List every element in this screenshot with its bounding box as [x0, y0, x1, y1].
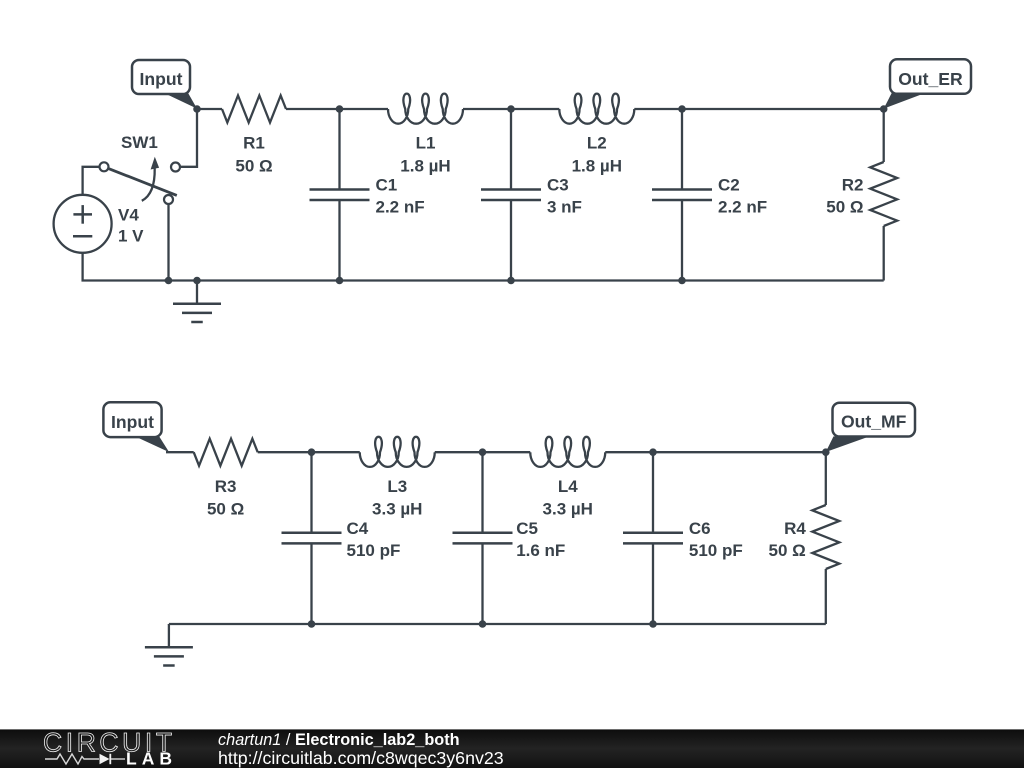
junction C6 bottom	[649, 620, 657, 628]
node Out_MF (junction dot)	[822, 448, 830, 456]
wire R1 to L1	[286, 108, 388, 110]
svg-text:R4: R4	[784, 519, 806, 538]
svg-text:V4: V4	[118, 206, 139, 225]
junction C4 top	[308, 448, 316, 456]
wire R2 to ground bus	[883, 226, 885, 281]
switch SW1 arm	[108, 168, 177, 195]
net flag Out_ER	[884, 59, 971, 108]
wire Input flag to R3	[166, 451, 194, 453]
resistor R1	[222, 96, 286, 123]
svg-text:http://circuitlab.com/c8wqec3y: http://circuitlab.com/c8wqec3y6nv23	[218, 748, 504, 768]
resistor R4	[812, 505, 839, 569]
wire L1 to L2	[463, 108, 559, 110]
wire V4 bottom to ground bus	[83, 253, 165, 281]
voltage source V4	[54, 195, 112, 253]
capacitor C6	[623, 452, 683, 624]
svg-text:2.2 nF: 2.2 nF	[376, 198, 425, 217]
wire R4 to bottom bus	[825, 569, 827, 624]
inductor L1	[388, 94, 463, 124]
junction C5 bottom	[479, 620, 487, 628]
svg-text:Input: Input	[140, 69, 183, 89]
svg-text:50 Ω: 50 Ω	[769, 541, 806, 560]
node Input (junction dot)	[193, 105, 201, 113]
svg-text:R1: R1	[243, 134, 265, 153]
wire switch terminal C to ground bus	[167, 204, 169, 281]
junction C2 top	[678, 105, 686, 113]
junction C3 top	[507, 105, 515, 113]
switch SW1 terminal A	[100, 162, 109, 171]
capacitor C4	[282, 452, 342, 624]
net flag Input (bottom)	[103, 402, 169, 452]
capacitor C5	[453, 452, 513, 624]
svg-text:C5: C5	[516, 519, 538, 538]
junction C4 bottom	[308, 620, 316, 628]
junction C5 top	[479, 448, 487, 456]
svg-text:3.3 µH: 3.3 µH	[372, 500, 422, 519]
inductor L4	[530, 437, 605, 467]
svg-text:C6: C6	[689, 519, 711, 538]
svg-text:3.3 µH: 3.3 µH	[543, 500, 593, 519]
wire node Input to R1	[197, 108, 222, 110]
svg-text:1.8 µH: 1.8 µH	[572, 156, 622, 175]
svg-text:50 Ω: 50 Ω	[826, 198, 863, 217]
svg-text:C3: C3	[547, 176, 569, 195]
svg-text:1 V: 1 V	[118, 227, 144, 246]
svg-text:2.2 nF: 2.2 nF	[718, 198, 767, 217]
capacitor C2	[652, 109, 712, 281]
wire L3 to L4	[435, 451, 531, 453]
svg-text:C2: C2	[718, 176, 740, 195]
wire L2 to node Out_ER	[634, 108, 883, 110]
svg-text:510 pF: 510 pF	[689, 541, 743, 560]
ground bus wire (top circuit)	[164, 279, 884, 281]
ground (top circuit)	[173, 281, 221, 323]
svg-text:Out_ER: Out_ER	[898, 69, 963, 89]
svg-text:chartun1 / Electronic_lab2_bot: chartun1 / Electronic_lab2_both	[218, 731, 460, 749]
junction C1 top	[336, 105, 344, 113]
svg-text:50 Ω: 50 Ω	[235, 156, 272, 175]
ground bus wire (bottom circuit)	[169, 623, 826, 625]
svg-text:Input: Input	[111, 412, 154, 432]
switch SW1 actuation arrow	[142, 157, 159, 201]
wire R3 to L3	[258, 451, 360, 453]
junction C6 top	[649, 448, 657, 456]
capacitor C1	[310, 109, 370, 281]
svg-text:L3: L3	[387, 477, 407, 496]
ground (bottom circuit)	[145, 624, 193, 666]
svg-text:R2: R2	[842, 176, 864, 195]
junction C1 bottom	[336, 277, 344, 285]
svg-text:R3: R3	[215, 477, 237, 496]
inductor L2	[559, 94, 634, 124]
inductor L3	[360, 437, 435, 467]
junction switch leg / ground bus	[165, 277, 173, 285]
wire node Out_MF to R4	[825, 452, 827, 505]
node Out_ER (junction dot)	[880, 105, 888, 113]
resistor R2	[870, 162, 897, 226]
wire V4 top to switch SW1	[83, 167, 100, 195]
svg-text:L2: L2	[587, 134, 607, 153]
resistor R3	[194, 439, 258, 466]
net flag Out_MF	[826, 403, 915, 452]
junction ground stem	[193, 277, 201, 285]
wire bus corner to ground	[168, 623, 170, 626]
svg-text:Out_MF: Out_MF	[841, 412, 907, 432]
svg-text:L1: L1	[416, 134, 436, 153]
junction C3 bottom	[507, 277, 515, 285]
svg-text:LAB: LAB	[126, 749, 177, 768]
switch SW1 terminal B	[171, 163, 180, 172]
svg-text:1.6 nF: 1.6 nF	[516, 541, 565, 560]
capacitor C3	[481, 109, 541, 281]
svg-text:C1: C1	[376, 176, 398, 195]
net flag Input (top)	[132, 60, 197, 109]
svg-text:1.8 µH: 1.8 µH	[400, 156, 450, 175]
switch SW1 terminal C	[164, 195, 173, 204]
svg-text:510 pF: 510 pF	[347, 541, 401, 560]
wire L4 to node Out_MF	[605, 451, 826, 453]
junction C2 bottom	[678, 277, 686, 285]
svg-text:L4: L4	[558, 477, 578, 496]
svg-text:50 Ω: 50 Ω	[207, 500, 244, 519]
wire switch terminal B to node Input	[180, 109, 197, 167]
logo diode	[100, 754, 110, 764]
wire node Out_ER to R2	[883, 109, 885, 162]
svg-text:C4: C4	[347, 519, 369, 538]
logo resistor squiggle	[45, 754, 99, 764]
svg-text:SW1: SW1	[121, 133, 158, 152]
svg-text:3 nF: 3 nF	[547, 198, 582, 217]
